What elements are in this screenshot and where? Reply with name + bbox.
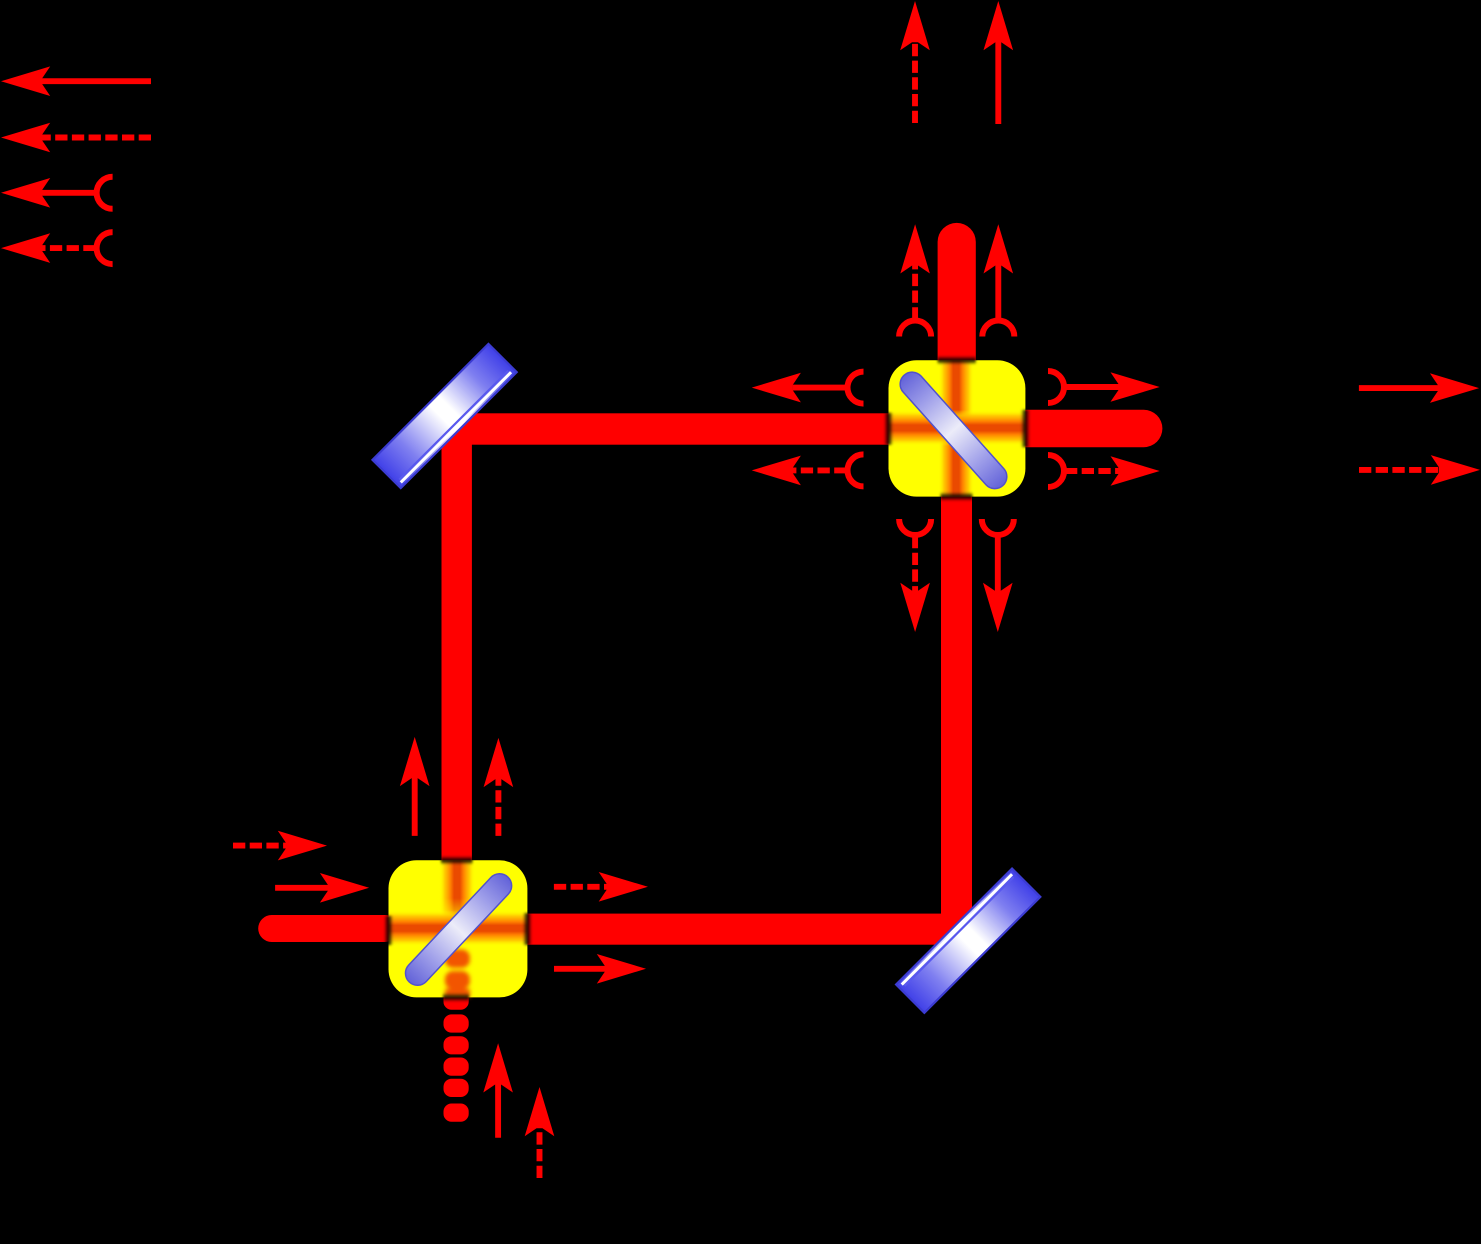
beam mirror M2 to BS2 (vertical, right arm) [941, 490, 972, 960]
output beam up from BS2 [938, 223, 976, 383]
beam splitter BS1 (lower-left) [389, 860, 528, 997]
phasor below BS1 solid [483, 1043, 513, 1138]
phasor above BS1 dashed [484, 738, 514, 836]
output O2 dashed phasor (right far) [1359, 455, 1480, 485]
output beam right from BS2 [1008, 410, 1162, 447]
input phasor solid left of BS1 [275, 873, 369, 903]
phasor left of BS2 dashed with tail [752, 454, 864, 486]
mirror M1 (upper-left) [372, 344, 516, 488]
phasor left of BS2 solid with tail [752, 372, 864, 404]
output O1 dashed phasor (top far) [900, 1, 930, 123]
BS1 splitting surface [401, 869, 517, 990]
input phasor dashed upper-left of BS1 [233, 831, 327, 861]
phasor right of BS2 solid with tail [1048, 371, 1160, 403]
legend arrow: dashed (photon lower path) [1, 123, 151, 153]
phasor right of BS1 solid [554, 954, 646, 984]
output O2 solid phasor (right far) [1359, 373, 1479, 403]
beam BS1 to mirror M1 (vertical, left arm) [442, 398, 472, 868]
phasor right of BS2 dashed with tail [1048, 455, 1160, 487]
phasor below BS2 solid with tail [982, 519, 1014, 632]
phasor above BS2 dashed with tail [899, 224, 931, 336]
output O1 solid phasor (top far) [984, 1, 1014, 124]
dark beam entries at splitter borders [384, 356, 1030, 1002]
beam splitter BS2 (upper-right) [889, 360, 1026, 496]
phasor below BS2 dashed with tail [899, 519, 931, 632]
input beam into BS1 from left [258, 915, 398, 942]
dashed cancelled beam below BS1 [444, 992, 469, 1122]
legend arrow: dashed with phase tail [1, 232, 113, 264]
legend arrow: solid with phase tail [1, 177, 113, 209]
phasor above BS1 solid [400, 737, 430, 836]
phasor above BS2 solid with tail [982, 224, 1014, 336]
BS2 splitting surface [895, 367, 1012, 493]
phasor right of BS1 dashed [554, 872, 648, 902]
mirror M2 (lower-right) [896, 869, 1040, 1013]
beam BS1 to mirror M2 (horizontal, bottom arm) [520, 914, 988, 945]
beam mirror M1 to BS2 (horizontal, top arm) [428, 413, 895, 444]
phasor below BS1 dashed [525, 1087, 555, 1178]
legend arrow: solid (photon from source) [1, 66, 151, 96]
